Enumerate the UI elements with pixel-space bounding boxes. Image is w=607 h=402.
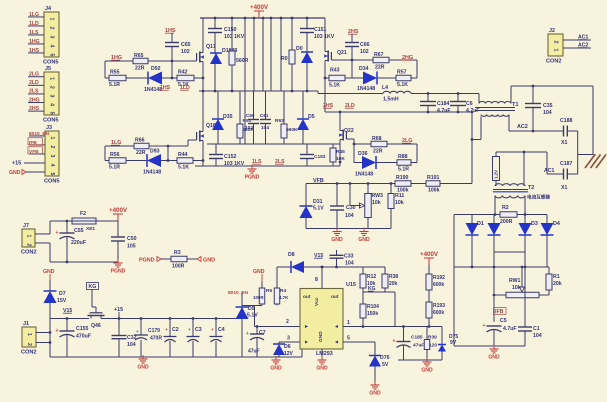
svg-text:R11: R11: [395, 193, 404, 199]
svg-text:C5: C5: [500, 318, 507, 324]
wire left side down: [453, 215, 455, 268]
svg-text:10k: 10k: [395, 200, 404, 206]
ground GND sense: [426, 358, 428, 362]
transistor Q46: [90, 316, 92, 319]
svg-text:+: +: [188, 327, 191, 332]
wire D8 to V15 node: [304, 266, 364, 268]
svg-text:1: 1: [49, 18, 55, 21]
zener D5 5.1V: [236, 307, 249, 319]
svg-text:1N4148: 1N4148: [143, 170, 161, 176]
svg-text:R56: R56: [110, 152, 120, 158]
wire AC1 down: [546, 152, 548, 174]
ground GND divider 2: [363, 228, 365, 232]
svg-text:CON2: CON2: [21, 250, 37, 256]
svg-text:RW1: RW1: [509, 278, 521, 284]
wire RW1 left: [494, 294, 506, 296]
wire right drop 2HG: [416, 60, 418, 78]
wire D34 to R57: [377, 77, 396, 79]
inductor L4 1.5mH: [383, 91, 411, 93]
resistor R43 5.1K: [329, 75, 345, 81]
svg-text:R104: R104: [367, 304, 379, 310]
wire L4 to C184: [411, 93, 428, 95]
wire EN junction: [241, 292, 243, 307]
wire U15 pin8 Vcc: [321, 267, 323, 289]
wire to Q18 gate: [168, 145, 188, 147]
svg-text:X1: X1: [561, 140, 567, 146]
wire C150 column: [214, 18, 216, 29]
capacitor C184 4.7uF: [427, 94, 429, 102]
svg-text:220uF: 220uF: [71, 240, 86, 246]
wire low rail: [207, 143, 340, 145]
svg-text:+: +: [56, 328, 59, 334]
transformer T1: [478, 94, 480, 104]
svg-text:2: 2: [49, 146, 55, 149]
svg-text:2: 2: [286, 319, 289, 325]
resistor R5 100R: [259, 288, 265, 304]
zener D7 15V: [44, 291, 57, 303]
wire earth branch: [578, 154, 593, 156]
wire D19 down: [302, 130, 304, 144]
wire U15 pin5 row: [343, 341, 375, 343]
svg-text:100k: 100k: [428, 188, 440, 194]
wire pin3 row: [279, 341, 300, 343]
svg-text:R88: R88: [398, 154, 408, 160]
resistor R1 20k: [548, 267, 550, 274]
capacitor C5 4.7uF electrolytic: [487, 325, 502, 327]
capacitor C65 102: [165, 42, 179, 44]
svg-text:F2: F2: [80, 211, 86, 217]
svg-text:102: 102: [360, 49, 369, 55]
wire output bottom rail: [454, 345, 525, 347]
wire sense bottom rail: [398, 359, 442, 361]
wire J3 pin4: [24, 162, 45, 164]
wire R67 to 2HG: [389, 59, 417, 61]
svg-text:AC1: AC1: [544, 168, 554, 174]
svg-text:8010_EN: 8010_EN: [29, 131, 50, 137]
svg-text:3: 3: [287, 336, 290, 342]
svg-text:AC2: AC2: [517, 124, 528, 130]
capacitor C55 220uF electrolytic: [66, 221, 68, 233]
diode D36 1N4148: [362, 156, 376, 169]
wire bus vertical 2: [253, 18, 255, 91]
capacitor C60 103: [253, 91, 255, 120]
potentiometer RW1 10k: [506, 292, 539, 298]
wire T2 secondary left down: [494, 196, 496, 215]
svg-text:104: 104: [543, 110, 552, 116]
potentiometer RW3 10k: [365, 194, 372, 218]
wire D35 down: [217, 130, 219, 144]
svg-text:D93: D93: [150, 149, 160, 155]
capacitor C30 104: [336, 184, 338, 207]
wire PGND to R3: [161, 258, 171, 260]
svg-text:102: 102: [181, 49, 190, 55]
svg-text:+: +: [393, 339, 396, 345]
wire RW1 wiper: [521, 267, 523, 287]
svg-text:+400V: +400V: [109, 207, 128, 214]
svg-text:PGND: PGND: [245, 175, 260, 181]
svg-text:+: +: [483, 323, 486, 329]
diode D8: [277, 266, 292, 268]
wire T1 secondary right down: [508, 115, 510, 132]
wire R192 to R193: [428, 290, 430, 302]
resistor R91 560R: [239, 91, 241, 124]
svg-text:R38: R38: [389, 274, 398, 280]
ground GND filter: [142, 355, 144, 359]
wire R88 right: [411, 162, 417, 164]
wire R57 right: [411, 77, 417, 79]
wire right drop 2LG: [416, 144, 418, 163]
svg-text:470uF: 470uF: [76, 334, 91, 340]
svg-text:1.5mH: 1.5mH: [383, 97, 399, 103]
svg-text:2: 2: [26, 343, 32, 346]
svg-text:C33: C33: [344, 254, 354, 260]
svg-text:600k: 600k: [433, 310, 444, 316]
wire left drop: [104, 61, 106, 78]
svg-text:R12: R12: [367, 274, 376, 280]
svg-text:1LS: 1LS: [29, 30, 39, 36]
wire J7 pin2: [35, 242, 50, 244]
diode D93 1N4148: [147, 154, 161, 167]
svg-text:D8: D8: [288, 252, 295, 258]
earth ground: [585, 155, 595, 169]
resistor R104 150k: [362, 292, 364, 304]
resistor R66 22R: [134, 143, 149, 149]
resistor R191 100k: [426, 181, 440, 187]
wire R3 to GND: [187, 258, 197, 260]
svg-text:100R: 100R: [172, 264, 185, 270]
svg-text:R192: R192: [433, 275, 445, 281]
wire J3 pin: [29, 135, 45, 137]
svg-text:C35: C35: [543, 103, 553, 109]
wire J4 pin: [28, 52, 44, 54]
svg-text:R1: R1: [553, 274, 560, 280]
svg-text:2LG: 2LG: [29, 72, 39, 78]
wire D34 row: [345, 77, 364, 79]
transistor Q18: [199, 131, 201, 142]
capacitor C153 103 1KV: [306, 144, 308, 155]
wire T2 top left: [496, 151, 512, 153]
svg-text:1.2V: 1.2V: [494, 170, 499, 179]
diode D34 1N4148: [363, 72, 377, 85]
connector J1 CON2: [22, 327, 36, 347]
svg-text:560K: 560K: [286, 127, 298, 133]
svg-text:1: 1: [49, 77, 55, 80]
svg-text:C3: C3: [195, 327, 202, 333]
wire R89 down: [231, 65, 233, 91]
resistor R90 560R: [289, 50, 295, 64]
wire VFB row: [306, 183, 395, 185]
svg-text:R43: R43: [330, 68, 340, 74]
wire J5 pin: [28, 102, 44, 104]
svg-text:C55: C55: [74, 228, 84, 234]
capacitor C6 4.7uF: [457, 94, 459, 102]
wire Q21 source: [324, 63, 326, 112]
svg-text:D35: D35: [223, 114, 233, 120]
wire J4 pin: [28, 43, 44, 45]
svg-text:8010_EN: 8010_EN: [228, 290, 249, 296]
svg-text:+15: +15: [12, 160, 21, 166]
connector J3 CON5: [45, 131, 59, 176]
svg-text:C65: C65: [181, 42, 191, 48]
svg-text:CON5: CON5: [43, 118, 59, 124]
svg-text:R57: R57: [397, 70, 407, 76]
connector J4 CON5: [44, 12, 59, 57]
svg-text:RW3: RW3: [372, 193, 384, 199]
wire bus vertical 1: [244, 18, 246, 144]
svg-text:GND: GND: [253, 269, 265, 275]
svg-text:L4: L4: [382, 85, 388, 91]
resistor R88 5.1R: [397, 160, 411, 166]
wire D36 row: [353, 144, 355, 163]
svg-text:D5: D5: [308, 114, 315, 120]
wire D36 to R88: [376, 162, 397, 164]
wire inner bottoms: [494, 251, 525, 253]
svg-text:R190: R190: [396, 175, 409, 181]
capacitor C3: [192, 319, 194, 337]
svg-text:103: 103: [245, 125, 253, 131]
svg-text:1: 1: [347, 320, 350, 326]
wire top to T1: [458, 93, 479, 95]
svg-text:3: 3: [49, 155, 55, 158]
resistor R89 560R: [229, 51, 235, 65]
resistor R3 100R: [171, 256, 187, 262]
svg-text:D7: D7: [59, 291, 66, 297]
svg-text:9V: 9V: [450, 340, 457, 346]
wire bus vertical 5: [280, 18, 282, 91]
svg-text:8: 8: [315, 277, 318, 283]
svg-text:CON2: CON2: [546, 59, 562, 65]
resistor R57 5.1K: [396, 75, 411, 81]
wire KG to Q46 gate: [91, 289, 93, 307]
svg-text:R2: R2: [502, 205, 509, 211]
svg-text:200R: 200R: [500, 219, 513, 225]
svg-text:4: 4: [49, 45, 55, 48]
svg-text:D6: D6: [284, 344, 291, 350]
wire J5 pin: [28, 110, 44, 112]
resistor R65 22R: [133, 58, 148, 64]
capacitor C66 102: [345, 42, 359, 44]
svg-text:22R: 22R: [373, 149, 383, 155]
svg-text:4: 4: [49, 103, 55, 106]
capacitor C50 105: [117, 221, 119, 237]
svg-text:J7: J7: [23, 223, 29, 229]
wire R91 down: [239, 138, 241, 144]
svg-text:out: out: [331, 294, 339, 300]
wire J1 vertical: [49, 319, 51, 358]
resistor R44 5.1K: [177, 158, 193, 164]
wire bridge output to L4: [317, 91, 319, 94]
wire D93 to R44: [161, 160, 177, 162]
svg-text:C4: C4: [218, 327, 225, 333]
svg-text:104: 104: [127, 342, 136, 348]
wire Q22 drain: [339, 112, 341, 129]
wire J3 pin: [29, 153, 45, 155]
svg-text:5.1V: 5.1V: [313, 206, 324, 212]
svg-text:CON2: CON2: [21, 350, 37, 356]
connector J5 CON5: [44, 72, 59, 115]
wire primary bottom rail: [472, 139, 481, 141]
wire J4 pin: [28, 34, 44, 36]
wire D35 column: [217, 91, 219, 119]
wire J7 pin1: [35, 233, 50, 235]
svg-text:+: +: [165, 327, 168, 332]
svg-text:J2: J2: [549, 28, 555, 34]
svg-text:out: out: [303, 294, 311, 300]
wire Q17 source to Q18 drain: [202, 64, 204, 130]
svg-text:R42: R42: [178, 70, 188, 76]
wire gate row to R68: [354, 143, 371, 145]
svg-text:10k: 10k: [512, 285, 521, 291]
svg-text:R3: R3: [174, 250, 181, 256]
wire C187 right: [567, 173, 577, 175]
resistor R12 10k: [362, 267, 364, 274]
svg-text:GND: GND: [270, 366, 282, 372]
svg-text:T2: T2: [528, 185, 534, 191]
svg-text:12V: 12V: [284, 351, 294, 357]
svg-text:GND: GND: [331, 237, 343, 243]
svg-text:105: 105: [127, 244, 136, 250]
wire J5 pin: [28, 76, 44, 78]
wire T2 right up: [523, 152, 525, 186]
svg-text:C50: C50: [127, 236, 137, 242]
svg-text:D0: D0: [296, 46, 303, 52]
wire 1LG to R66: [105, 145, 134, 147]
svg-text:R4: R4: [280, 288, 286, 294]
zener D75 9V: [441, 327, 443, 345]
sense element box: [493, 157, 500, 181]
capacitor C150 103 1KV: [208, 28, 222, 30]
wire Q21 drain: [324, 18, 326, 50]
capacitor C7 47uF electrolytic: [256, 327, 258, 335]
connector J2 CON2: [548, 34, 563, 56]
svg-text:1HG: 1HG: [29, 39, 40, 45]
wire C188 right: [567, 130, 577, 132]
svg-text:100R: 100R: [253, 295, 264, 300]
svg-text:120: 120: [429, 343, 437, 349]
svg-text:600k: 600k: [433, 282, 444, 288]
wire U15 pin4 GND: [321, 349, 323, 360]
capacitor C4: [215, 319, 217, 337]
svg-text:5: 5: [347, 336, 350, 342]
capacitor C32 104: [118, 319, 120, 336]
svg-text:C1: C1: [533, 326, 540, 332]
wire D92 to R42: [162, 77, 177, 79]
wire J3 pin: [29, 144, 45, 146]
svg-text:22R: 22R: [135, 66, 145, 72]
svg-text:22R: 22R: [136, 150, 146, 156]
svg-text:20k: 20k: [389, 281, 398, 287]
svg-text:R45: R45: [336, 149, 345, 155]
svg-text:+400V: +400V: [420, 251, 439, 258]
resistor R190 100k: [395, 181, 411, 187]
wire T1 secondary left down: [480, 117, 482, 140]
svg-text:PGND: PGND: [139, 258, 155, 264]
svg-text:560R: 560R: [236, 58, 249, 64]
svg-text:D36: D36: [358, 151, 368, 157]
ground PGND input: [117, 259, 119, 263]
svg-text:C155: C155: [76, 326, 89, 332]
wire KG row: [363, 291, 395, 293]
svg-text:PGND: PGND: [111, 269, 126, 275]
wire J5 pin: [28, 84, 44, 86]
svg-text:4.7uF: 4.7uF: [437, 108, 451, 114]
svg-text:GND: GND: [203, 258, 215, 264]
wire D17 down: [214, 64, 216, 91]
svg-text:5.1R: 5.1R: [109, 82, 120, 88]
transformer T2: [495, 184, 525, 186]
svg-text:C153: C153: [314, 154, 326, 160]
wire Q22 source to PGND rail: [339, 142, 341, 166]
svg-text:C185: C185: [411, 335, 423, 341]
ground GND divider 1: [336, 228, 338, 232]
svg-text:47uF: 47uF: [248, 349, 260, 355]
capacitor C151 103 1KV: [300, 28, 314, 30]
resistor R56 5.1R: [109, 158, 126, 164]
svg-text:5: 5: [49, 173, 55, 176]
wire Q21 gate: [337, 59, 352, 61]
svg-text:D1: D1: [477, 221, 484, 227]
resistor R2 200R: [500, 212, 517, 218]
svg-text:C187: C187: [560, 161, 573, 167]
svg-text:5: 5: [49, 112, 55, 115]
svg-text:1: 1: [26, 333, 32, 336]
connector J7 CON2: [22, 229, 35, 247]
resistor R193 600k: [426, 302, 432, 318]
svg-text:R44: R44: [178, 152, 188, 158]
wire D20 down: [306, 63, 308, 91]
svg-text:C60: C60: [246, 113, 255, 118]
zener D31 5.1V: [305, 184, 307, 207]
wire box to T2: [495, 181, 497, 187]
svg-text:1: 1: [553, 49, 559, 52]
svg-text:5.1R: 5.1R: [109, 165, 120, 171]
wire J4 pin: [28, 16, 44, 18]
svg-text:D34: D34: [359, 66, 369, 72]
wire J2 pin2 AC1: [563, 39, 591, 41]
svg-text:R65: R65: [134, 53, 144, 59]
svg-text:Q17: Q17: [206, 44, 216, 50]
diode D1: [471, 215, 473, 224]
wire R90 column: [291, 18, 293, 50]
diode D4: [546, 215, 548, 224]
wire R44 to source: [193, 160, 203, 162]
svg-text:R193: R193: [433, 303, 445, 309]
wire R90 down: [291, 64, 293, 91]
svg-text:D4: D4: [553, 221, 560, 227]
wire Q21 source row: [325, 77, 329, 79]
wire 1HS to C65: [171, 33, 173, 43]
wire U15 pin1 row: [343, 326, 442, 328]
resistor R45: [332, 144, 334, 148]
wire EN row to pin2: [254, 306, 256, 327]
svg-text:5.1K: 5.1K: [178, 165, 189, 171]
svg-text:103 1KV: 103 1KV: [314, 34, 335, 40]
svg-text:C2: C2: [172, 327, 179, 333]
wire R89 column: [231, 18, 233, 51]
svg-text:CON5: CON5: [43, 60, 59, 66]
svg-text:5V: 5V: [382, 362, 389, 368]
svg-text:C150: C150: [224, 27, 237, 33]
capacitor C33 104: [336, 250, 338, 255]
svg-text:150k: 150k: [367, 311, 378, 317]
wire R55 left: [105, 77, 109, 79]
transistor Q22: [342, 130, 344, 141]
wire mid rail 1LD: [199, 90, 318, 92]
svg-text:5.1K: 5.1K: [397, 82, 408, 88]
wire J5 pin: [28, 93, 44, 95]
svg-text:4.7uF: 4.7uF: [503, 326, 517, 332]
ground GND D76: [374, 381, 376, 385]
